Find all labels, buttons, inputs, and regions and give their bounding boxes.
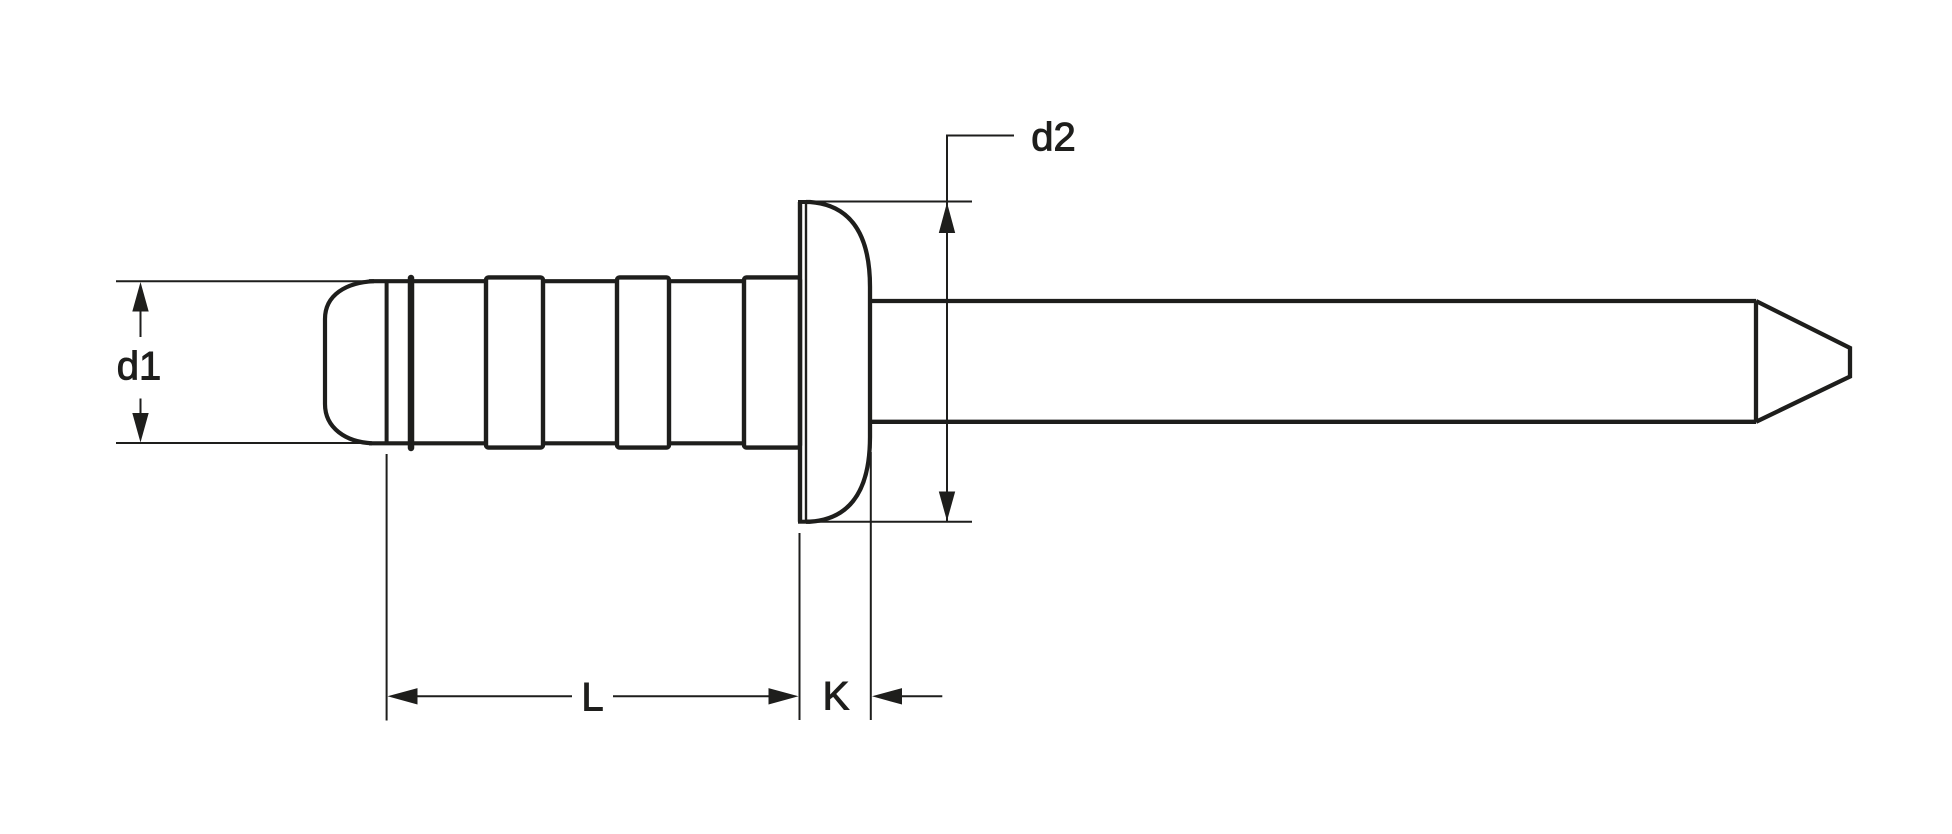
flange dome outline <box>806 202 870 522</box>
rivet body bottom outline <box>369 441 744 445</box>
d2 up arrow <box>939 203 955 234</box>
mandrel cone point <box>1756 301 1850 422</box>
K arrow <box>872 688 902 704</box>
flange top cap <box>798 200 810 204</box>
d1 top extension line <box>116 280 374 282</box>
flange body fill <box>806 202 870 522</box>
d1 bottom extension line <box>116 442 368 444</box>
L dimension line right part <box>613 695 770 697</box>
K arrow tail line <box>900 695 942 697</box>
flange outer face line <box>798 202 802 522</box>
d1 dimension up arrow <box>132 282 148 312</box>
d2 down arrow <box>939 492 955 522</box>
d1 down arrow shaft <box>140 399 142 415</box>
body ring <box>408 278 415 448</box>
flange inner face line <box>805 202 807 522</box>
K right extension line <box>870 452 872 720</box>
rivet body dome end cap <box>325 281 374 443</box>
L/K middle extension line <box>799 533 801 720</box>
body band 2 <box>617 277 669 447</box>
svg-text:K: K <box>823 675 850 719</box>
d2 dimension line <box>946 136 948 522</box>
L left arrow <box>388 688 418 704</box>
L dimension line left part <box>416 695 572 697</box>
d2 leader line <box>946 135 1014 137</box>
d1 up arrow shaft <box>140 310 142 337</box>
body band 3 <box>744 277 800 447</box>
dome cap edge line <box>385 281 389 443</box>
svg-text:d1: d1 <box>117 345 162 389</box>
d2 top extension line <box>810 201 972 203</box>
d2 bottom extension line <box>806 521 972 523</box>
L left extension line <box>386 454 388 721</box>
mandrel cone base <box>1754 301 1758 422</box>
svg-text:L: L <box>581 676 603 720</box>
d1 dimension down arrow <box>132 413 148 443</box>
body band 1 <box>486 277 543 447</box>
mandrel stem top line <box>865 299 1756 303</box>
svg-text:d2: d2 <box>1031 116 1076 160</box>
mandrel stem bottom line <box>865 420 1756 424</box>
L right arrow <box>769 688 799 704</box>
rivet body top outline <box>369 279 744 283</box>
flange bottom cap <box>798 520 810 524</box>
